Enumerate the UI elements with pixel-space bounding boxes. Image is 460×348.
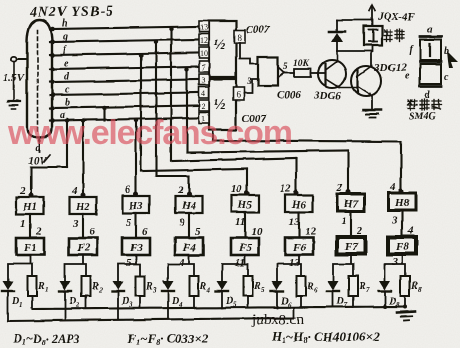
input circle node H2 xyxy=(81,193,85,197)
svg-text:2: 2 xyxy=(35,226,42,238)
svg-text:12: 12 xyxy=(280,183,292,195)
svg-text:5: 5 xyxy=(261,286,265,294)
svg-text:H2: H2 xyxy=(75,201,91,213)
input circle node H1 xyxy=(29,193,33,197)
resistor R4 xyxy=(190,276,212,307)
wire H4 to F4 xyxy=(188,213,190,238)
wire pin6 to gate input 3 xyxy=(244,76,258,93)
wire F2 output node xyxy=(65,255,86,281)
inverter H4 xyxy=(176,196,203,213)
svg-text:e: e xyxy=(64,59,69,70)
inverter H8 xyxy=(389,193,416,210)
node pin 2 above H1 xyxy=(19,185,26,197)
ground bus lower xyxy=(8,318,294,321)
resistor R5 xyxy=(244,276,266,307)
inverter H3 xyxy=(123,196,150,213)
svg-text:4: 4 xyxy=(178,257,185,269)
input circle node H7 xyxy=(346,190,350,194)
svg-text:R: R xyxy=(410,281,418,292)
U1 input pin squares 13 12 10 7 3 4 2 1 xyxy=(199,21,209,124)
svg-text:1: 1 xyxy=(19,301,23,309)
svg-text:4: 4 xyxy=(389,181,396,193)
wire feed H5 from bus f xyxy=(139,53,247,194)
wire F8 output node xyxy=(385,254,405,281)
svg-text:F5: F5 xyxy=(238,242,252,254)
svg-text:R: R xyxy=(37,281,45,292)
svg-text:5: 5 xyxy=(283,61,288,71)
label relay chinese xyxy=(384,29,404,42)
wire feed H6 from bus h xyxy=(169,27,296,194)
svg-text:11: 11 xyxy=(235,216,245,228)
wire F6 output node xyxy=(277,255,301,281)
svg-text:R: R xyxy=(199,281,207,292)
wire feed H3 from bus a xyxy=(134,118,138,195)
svg-text:6: 6 xyxy=(314,286,318,294)
inverter IC U1 bottom half C007 xyxy=(209,79,236,130)
svg-text:10: 10 xyxy=(251,226,263,238)
gate output pin 5 xyxy=(283,61,294,73)
transistor Q1 3DG6 xyxy=(313,51,346,102)
inverter F4 xyxy=(175,238,203,255)
input circle node H3 xyxy=(134,192,138,196)
inverter F8 xyxy=(388,237,416,254)
svg-text:3: 3 xyxy=(152,286,157,294)
svg-text:4N2V YSB-5: 4N2V YSB-5 xyxy=(29,4,114,20)
svg-text:jubx8.cn: jubx8.cn xyxy=(251,312,305,328)
tube segment bus wires h g f e d c b a xyxy=(50,27,199,123)
wire F3 output node xyxy=(118,255,140,281)
ground below Q2 xyxy=(363,95,381,118)
inverter F6 xyxy=(285,238,313,255)
diode D8 2AP3 xyxy=(379,281,400,309)
svg-text:7: 7 xyxy=(202,63,206,72)
node pin 4 above H8 xyxy=(389,181,396,193)
gate U2 C006 xyxy=(258,57,284,86)
svg-text:F1: F1 xyxy=(23,242,37,254)
svg-text:3: 3 xyxy=(391,214,398,226)
svg-text:D: D xyxy=(121,296,129,307)
VFD tube V1 envelope xyxy=(27,20,52,138)
svg-text:6: 6 xyxy=(89,226,95,238)
svg-text:H4: H4 xyxy=(181,200,197,212)
svg-text:F4: F4 xyxy=(182,242,196,254)
svg-text:R: R xyxy=(306,281,314,292)
svg-text:8: 8 xyxy=(418,286,422,294)
svg-text:10: 10 xyxy=(200,49,208,58)
svg-text:JQX-4F: JQX-4F xyxy=(377,11,416,23)
input circle node H5 xyxy=(245,191,249,195)
inverter F2 xyxy=(69,238,97,255)
diode D4 2AP3 xyxy=(162,281,183,319)
svg-text:D: D xyxy=(280,296,288,307)
svg-text:H1: H1 xyxy=(22,201,37,213)
U1 output pin 8 xyxy=(234,30,245,43)
wire H2 to F2 xyxy=(82,214,84,238)
svg-text:b: b xyxy=(65,98,70,109)
node pin 6 above H3 xyxy=(125,184,131,196)
positive supply terminal arrow xyxy=(369,5,375,20)
svg-text:8: 8 xyxy=(237,33,242,43)
bus connector wire xyxy=(293,308,295,318)
svg-text:H6: H6 xyxy=(291,199,307,211)
svg-text:3: 3 xyxy=(391,256,398,268)
svg-text:F8: F8 xyxy=(395,241,409,253)
wire H3 to F3 xyxy=(135,213,137,238)
svg-text:12: 12 xyxy=(200,36,208,45)
diode D5 2AP3 xyxy=(216,281,237,309)
7-segment display icon xyxy=(420,37,441,87)
svg-text:5: 5 xyxy=(126,257,132,269)
svg-text:D: D xyxy=(68,296,76,307)
inverter H5 xyxy=(232,195,259,212)
svg-text:H5: H5 xyxy=(237,199,253,211)
svg-text:6: 6 xyxy=(236,90,241,100)
resistor R8 xyxy=(401,276,423,307)
svg-text:D: D xyxy=(225,296,233,307)
svg-text:½: ½ xyxy=(214,97,225,113)
stub junction wire xyxy=(102,106,106,121)
resistor R6 xyxy=(297,276,319,307)
inverter H2 xyxy=(70,197,97,214)
svg-text:R: R xyxy=(145,281,153,292)
inverter H6 xyxy=(286,195,313,212)
svg-text:3: 3 xyxy=(202,76,206,85)
svg-text:F6: F6 xyxy=(292,242,306,254)
U1 output pin 6 xyxy=(233,87,244,100)
svg-text:F2: F2 xyxy=(76,242,90,254)
resistor R2 xyxy=(82,276,104,308)
relay K JQX-4F xyxy=(364,20,382,51)
wire diode to collector node xyxy=(337,50,372,52)
svg-text:C006: C006 xyxy=(277,89,301,101)
resistor R1 xyxy=(28,276,49,308)
ground symbol at bus xyxy=(397,311,415,321)
transistor Q2 3DG12 xyxy=(339,51,407,96)
tube grid pin d, -10V supply xyxy=(28,138,50,167)
wire F5 output node xyxy=(222,255,248,281)
inverter H7 xyxy=(338,194,365,211)
wire feed H2 from bus b xyxy=(81,118,85,196)
svg-text:c: c xyxy=(444,72,449,83)
svg-text:H3: H3 xyxy=(128,200,144,212)
wire feed H8 from U1 xyxy=(213,130,401,192)
node pin 2 above H7 xyxy=(336,182,343,194)
svg-text:H1~H8· CH40106×2: H1~H8· CH40106×2 xyxy=(271,329,380,345)
svg-text:3: 3 xyxy=(72,218,79,230)
junction dot R8 xyxy=(403,305,407,309)
svg-text:6: 6 xyxy=(125,184,131,196)
svg-text:5: 5 xyxy=(126,217,132,229)
wire F7 output node xyxy=(333,254,353,281)
diode D7 2AP3 xyxy=(327,281,348,309)
node pin 4 above H2 xyxy=(71,185,78,197)
svg-text:3DG6: 3DG6 xyxy=(313,90,341,102)
svg-text:3: 3 xyxy=(246,76,252,86)
svg-text:2: 2 xyxy=(202,102,206,111)
inverter IC U1 top half C007 xyxy=(209,21,236,77)
svg-text:D: D xyxy=(11,296,19,307)
svg-text:4: 4 xyxy=(71,185,78,197)
wire feed H7 from bus e xyxy=(185,67,348,193)
wire H8 to F8 xyxy=(401,210,403,237)
svg-text:8: 8 xyxy=(396,301,400,309)
svg-text:g: g xyxy=(62,32,68,43)
input circle node H6 xyxy=(294,191,298,195)
resistor 10K xyxy=(293,59,318,77)
diode D6 2AP3 xyxy=(271,281,292,309)
svg-text:H7: H7 xyxy=(343,198,359,210)
svg-text:D: D xyxy=(336,296,344,307)
svg-text:1: 1 xyxy=(20,218,26,230)
wire feed H1 from bus a xyxy=(31,118,69,196)
svg-text:4: 4 xyxy=(206,286,211,294)
svg-text:9: 9 xyxy=(179,217,185,229)
svg-text:H8: H8 xyxy=(394,197,410,209)
wire H1 to F1 xyxy=(29,214,31,238)
wire pin8 to gate input 1 xyxy=(240,43,259,64)
svg-text:a: a xyxy=(427,25,432,36)
svg-text:D: D xyxy=(388,296,396,307)
cursor artifact arrow xyxy=(447,51,458,68)
diode D2 2AP3 xyxy=(59,281,80,320)
wire H7 to F7 xyxy=(350,211,352,237)
svg-text:7: 7 xyxy=(366,286,370,294)
svg-text:D: D xyxy=(171,296,179,307)
svg-text:h: h xyxy=(62,19,68,30)
svg-text:2: 2 xyxy=(98,286,103,294)
svg-text:SM4G: SM4G xyxy=(409,111,436,122)
filament terminal 1.5V xyxy=(3,56,27,108)
node pin 2 above H4 xyxy=(177,184,184,196)
diode D1 2AP3 xyxy=(2,281,23,320)
flyback diode VD xyxy=(329,20,345,51)
svg-text:e: e xyxy=(405,71,410,82)
svg-text:4: 4 xyxy=(202,89,206,98)
input circle node H8 xyxy=(399,189,403,193)
svg-text:1: 1 xyxy=(45,286,49,294)
resistor R3 xyxy=(136,276,158,308)
svg-text:6: 6 xyxy=(142,226,148,238)
svg-text:R: R xyxy=(91,281,99,292)
resistor R7 xyxy=(349,276,371,307)
svg-text:1.5V: 1.5V xyxy=(3,72,26,84)
svg-text:F7: F7 xyxy=(344,241,358,253)
wire F1 output node xyxy=(8,255,32,281)
node pin 12 above H6 xyxy=(280,183,292,195)
wire supply node xyxy=(337,19,372,21)
svg-text:10: 10 xyxy=(231,183,243,195)
svg-text:R: R xyxy=(358,281,366,292)
svg-text:11: 11 xyxy=(235,257,245,269)
svg-text:C007: C007 xyxy=(246,24,270,36)
svg-text:10K: 10K xyxy=(293,59,310,69)
wire F4 output node xyxy=(168,255,194,281)
inverter H1 xyxy=(17,197,44,214)
wire H5 to F5 xyxy=(244,212,246,238)
inverter F3 xyxy=(122,238,150,255)
svg-text:3DG12: 3DG12 xyxy=(373,62,407,74)
ground bus upper xyxy=(33,307,404,310)
7-segment labels a f b g e c d xyxy=(405,25,449,101)
segment pin labels h g f e d c b a xyxy=(60,19,70,122)
display name text xyxy=(408,99,441,110)
svg-text:5: 5 xyxy=(195,226,201,238)
svg-text:½: ½ xyxy=(214,37,225,53)
svg-text:R: R xyxy=(253,281,261,292)
svg-text:12: 12 xyxy=(305,226,317,238)
inverter F1 xyxy=(16,238,44,255)
svg-text:1: 1 xyxy=(341,215,347,227)
node pin 10 above H5 xyxy=(231,183,243,195)
inverter F7 xyxy=(337,237,365,254)
diode D3 2AP3 xyxy=(112,281,133,319)
input circle node H4 xyxy=(187,192,191,196)
svg-text:F3: F3 xyxy=(129,242,143,254)
wire feed H4 from bus g xyxy=(154,40,189,195)
svg-text:2: 2 xyxy=(336,182,343,194)
wire H6 to F6 xyxy=(298,212,300,238)
svg-text:2: 2 xyxy=(19,185,26,197)
svg-text:2: 2 xyxy=(177,184,184,196)
inverter F5 xyxy=(231,238,259,255)
svg-text:13: 13 xyxy=(200,23,208,32)
junction dot D8 xyxy=(383,305,387,309)
svg-text:www.elecfans.com: www.elecfans.com xyxy=(7,114,292,152)
svg-text:c: c xyxy=(65,85,70,96)
